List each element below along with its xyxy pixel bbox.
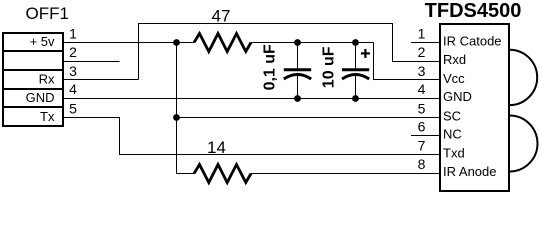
capacitor C2 polarity plus sign: [361, 49, 370, 58]
svg-text:2: 2: [418, 44, 426, 60]
svg-text:0,1 uF: 0,1 uF: [261, 44, 278, 90]
svg-text:5: 5: [69, 100, 77, 116]
wire +5v: connector pin1 to resistor R47: [64, 42, 195, 44]
node C2 top: [352, 39, 359, 46]
wire stub IC pin6: [411, 135, 440, 137]
IC TFDS4500 body: [440, 24, 509, 191]
node SC tap: [173, 114, 180, 121]
node C1 bottom GND: [294, 95, 301, 102]
svg-text:4: 4: [69, 81, 77, 97]
svg-text:2: 2: [69, 44, 77, 60]
IC TFDS4500 detector lens arc bottom: [510, 116, 538, 172]
svg-text:5: 5: [418, 100, 426, 116]
svg-text:NC: NC: [443, 127, 462, 142]
svg-text:GND: GND: [26, 90, 55, 105]
wire cap C1 bottom lead: [297, 76, 299, 99]
connector OFF1 body: [3, 33, 63, 126]
svg-text:47: 47: [212, 7, 231, 26]
node +5v / R47 / R14: [173, 39, 180, 46]
wire R14 right lead to IC pin8: [251, 173, 440, 175]
capacitor C1 0,1 uF plates: [284, 70, 311, 79]
svg-text:14: 14: [207, 138, 226, 157]
capacitor C2 10 uF plates: [342, 70, 369, 79]
svg-text:Txd: Txd: [443, 146, 465, 161]
wire GND bus: connector pin4 to IC pin4: [64, 98, 441, 100]
svg-text:Tx: Tx: [40, 109, 55, 124]
svg-text:7: 7: [418, 138, 426, 154]
wire Rx top bus to IC pin2 Rxd: [139, 24, 441, 80]
resistor 14: [194, 165, 251, 183]
node C2 bottom GND: [352, 95, 359, 102]
wire cap C1 top lead: [297, 43, 299, 69]
svg-text:10 uF: 10 uF: [321, 46, 338, 88]
svg-text:SC: SC: [443, 108, 461, 123]
svg-text:IR Catode: IR Catode: [443, 33, 502, 48]
node C1 top: [294, 39, 301, 46]
svg-text:3: 3: [418, 63, 426, 79]
svg-text:4: 4: [418, 81, 426, 97]
wire +5v vertical at x176: [176, 43, 178, 174]
svg-text:GND: GND: [443, 89, 472, 104]
svg-text:Vcc: Vcc: [443, 71, 465, 86]
svg-text:Rx: Rx: [39, 72, 55, 87]
wire Tx: connector pin5 jog down to IC pin7 Txd: [64, 118, 441, 155]
wire cap C2 bottom lead: [355, 76, 357, 99]
wire SC: node to IC pin5: [177, 117, 441, 119]
wire stub connector pin2 (dead end): [64, 61, 120, 63]
svg-text:OFF1: OFF1: [26, 4, 69, 23]
wire Rx: connector pin3 to riser: [64, 79, 139, 81]
svg-text:IR Anode: IR Anode: [443, 164, 497, 179]
svg-text:1: 1: [69, 25, 77, 41]
wire cap C2 top lead: [355, 43, 357, 69]
svg-text:TFDS4500: TFDS4500: [425, 0, 522, 22]
IC TFDS4500 emitter lens arc top: [510, 50, 538, 105]
wire stub IC pin1: [411, 42, 440, 44]
wire bus R47 to caps: [251, 42, 374, 44]
wire R14 left lead: [177, 173, 195, 175]
wire Vcc jog to IC pin3: [374, 43, 441, 80]
svg-text:3: 3: [69, 63, 77, 79]
svg-text:8: 8: [418, 156, 426, 172]
svg-text:Rxd: Rxd: [443, 52, 466, 67]
svg-text:1: 1: [418, 25, 426, 41]
svg-text:6: 6: [418, 119, 426, 135]
svg-text:+ 5v: + 5v: [30, 34, 55, 49]
resistor 47: [194, 34, 251, 52]
